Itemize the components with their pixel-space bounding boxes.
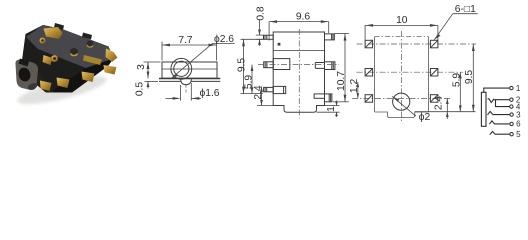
dimension 5.9 (footprint): [459, 72, 462, 112]
photo barrel (jack opening): [15, 59, 38, 92]
photo gold corner leg right: [106, 49, 118, 63]
footprint row3 centerline: [352, 97, 451, 99]
svg-text:6-□1: 6-□1: [455, 4, 476, 15]
dimension 9.5 (middle view): [241, 39, 264, 93]
middle top-left pin: [264, 35, 274, 39]
middle horizontal centerline: [258, 64, 339, 66]
dimension 0.5: [145, 81, 159, 88]
svg-text:1: 1: [516, 84, 521, 93]
front body outline: [162, 62, 217, 78]
footprint body outline: [375, 36, 429, 38]
pad mid-right: [430, 69, 438, 77]
schematic pin 5 contact: [490, 131, 510, 134]
dimension 2.4 (footprint): [446, 98, 449, 119]
svg-text:3: 3: [136, 64, 147, 70]
photo gold ring B: [51, 55, 58, 62]
svg-text:2.4: 2.4: [253, 85, 264, 100]
photo gold bottom leg B: [82, 72, 95, 83]
dimension 9.5 (footprint): [415, 44, 476, 112]
middle feature line: [273, 50, 324, 52]
photo gold ring A: [40, 38, 46, 44]
pad bottom-left: [365, 95, 373, 103]
middle vertical centerline: [298, 29, 300, 119]
front jack outer circle: [171, 58, 192, 79]
schematic pin 1 terminal: [510, 84, 521, 93]
svg-text:5: 5: [516, 130, 521, 139]
dimension 5.9 (middle view): [251, 65, 254, 94]
pad top-right: [430, 40, 438, 48]
photo gold mid band: [83, 55, 102, 65]
dimension phi1.6: [166, 83, 202, 101]
photo dark ring C: [70, 48, 78, 56]
front nub centerline: [185, 85, 187, 94]
photo gold bottom leg A: [57, 78, 70, 89]
dimension 10: [365, 24, 438, 40]
svg-text:5.9: 5.9: [452, 73, 463, 88]
schematic pin 6 terminal: [510, 120, 521, 129]
photo shadow: [15, 70, 109, 110]
front base top line: [159, 78, 220, 80]
photo gold front contact: [43, 55, 53, 65]
middle mid-left pin: [264, 59, 290, 70]
svg-text:ϕ2: ϕ2: [419, 112, 431, 123]
middle top-right pin: [325, 34, 335, 40]
photo top edge tab 2: [82, 33, 92, 40]
svg-text:ϕ2.6: ϕ2.6: [214, 34, 234, 45]
front base bottom line: [159, 80, 220, 82]
svg-text:9.5: 9.5: [236, 58, 247, 73]
schematic pin 2 terminal: [510, 96, 521, 105]
photo gold top pad: [44, 27, 63, 39]
svg-text:7.7: 7.7: [178, 35, 193, 46]
dimension 3: [144, 62, 161, 78]
middle bottom-right pin: [314, 94, 332, 102]
schematic pin 4 branch wire: [496, 100, 510, 107]
footprint circle phi2: [393, 93, 410, 110]
svg-text:9.6: 9.6: [296, 12, 311, 23]
photo connector body: [22, 25, 114, 93]
front jack inner circle: [174, 61, 189, 76]
schematic pin 2 contact: [488, 99, 510, 103]
photo gold bottom leg D: [40, 81, 52, 92]
dimension 2.4 (middle view): [257, 86, 273, 105]
schematic pin 3 terminal: [510, 110, 521, 119]
svg-text:10.7: 10.7: [336, 71, 347, 91]
schematic pin 5 terminal: [510, 130, 521, 139]
footprint vertical centerline: [400, 31, 402, 121]
svg-text:1.2: 1.2: [349, 78, 360, 93]
front body mid line: [162, 68, 217, 70]
dimension 10.7: [333, 34, 349, 102]
dimension 1.2 (footprint): [357, 82, 360, 98]
dimension 7.7: [162, 42, 217, 61]
dimension 9.6: [269, 20, 329, 40]
svg-text:6: 6: [516, 120, 521, 129]
svg-text:ϕ1.6: ϕ1.6: [199, 88, 219, 99]
photo gold bottom leg C: [104, 65, 117, 75]
schematic pin 4 terminal: [510, 102, 521, 111]
dimension 0.8: [256, 20, 264, 46]
pad top-left: [365, 40, 373, 48]
dimension phi2.6 leader: [171, 43, 235, 78]
photo dark ring D: [87, 41, 94, 48]
pad bottom-right: [430, 95, 438, 103]
svg-text:0.8: 0.8: [256, 6, 267, 21]
pad mid-left: [365, 69, 373, 77]
front nub phi1.6: [181, 79, 192, 85]
svg-text:2.4: 2.4: [434, 96, 445, 111]
footprint row2 centerline: [357, 71, 464, 73]
schematic pin 1 wire: [484, 88, 510, 92]
svg-text:3: 3: [516, 110, 521, 119]
dimension 1 (middle view): [317, 101, 340, 118]
footprint row1 centerline: [357, 43, 477, 45]
middle mark square: [278, 43, 281, 46]
photo top edge tab 1: [54, 23, 64, 30]
schematic barrel: [481, 92, 486, 126]
middle body outline: [273, 32, 324, 112]
svg-text:0.5: 0.5: [134, 82, 145, 97]
schematic pin 6 contact: [489, 121, 509, 124]
svg-text:10: 10: [396, 15, 408, 26]
middle bottom-left pin: [264, 86, 286, 93]
dimension phi2 leader: [392, 96, 416, 116]
label 6-square1: [434, 14, 478, 40]
schematic pin 3 contact: [488, 112, 510, 115]
svg-text:9.5: 9.5: [464, 70, 475, 85]
middle mid-right pin: [315, 62, 335, 70]
svg-text:1: 1: [326, 106, 337, 112]
